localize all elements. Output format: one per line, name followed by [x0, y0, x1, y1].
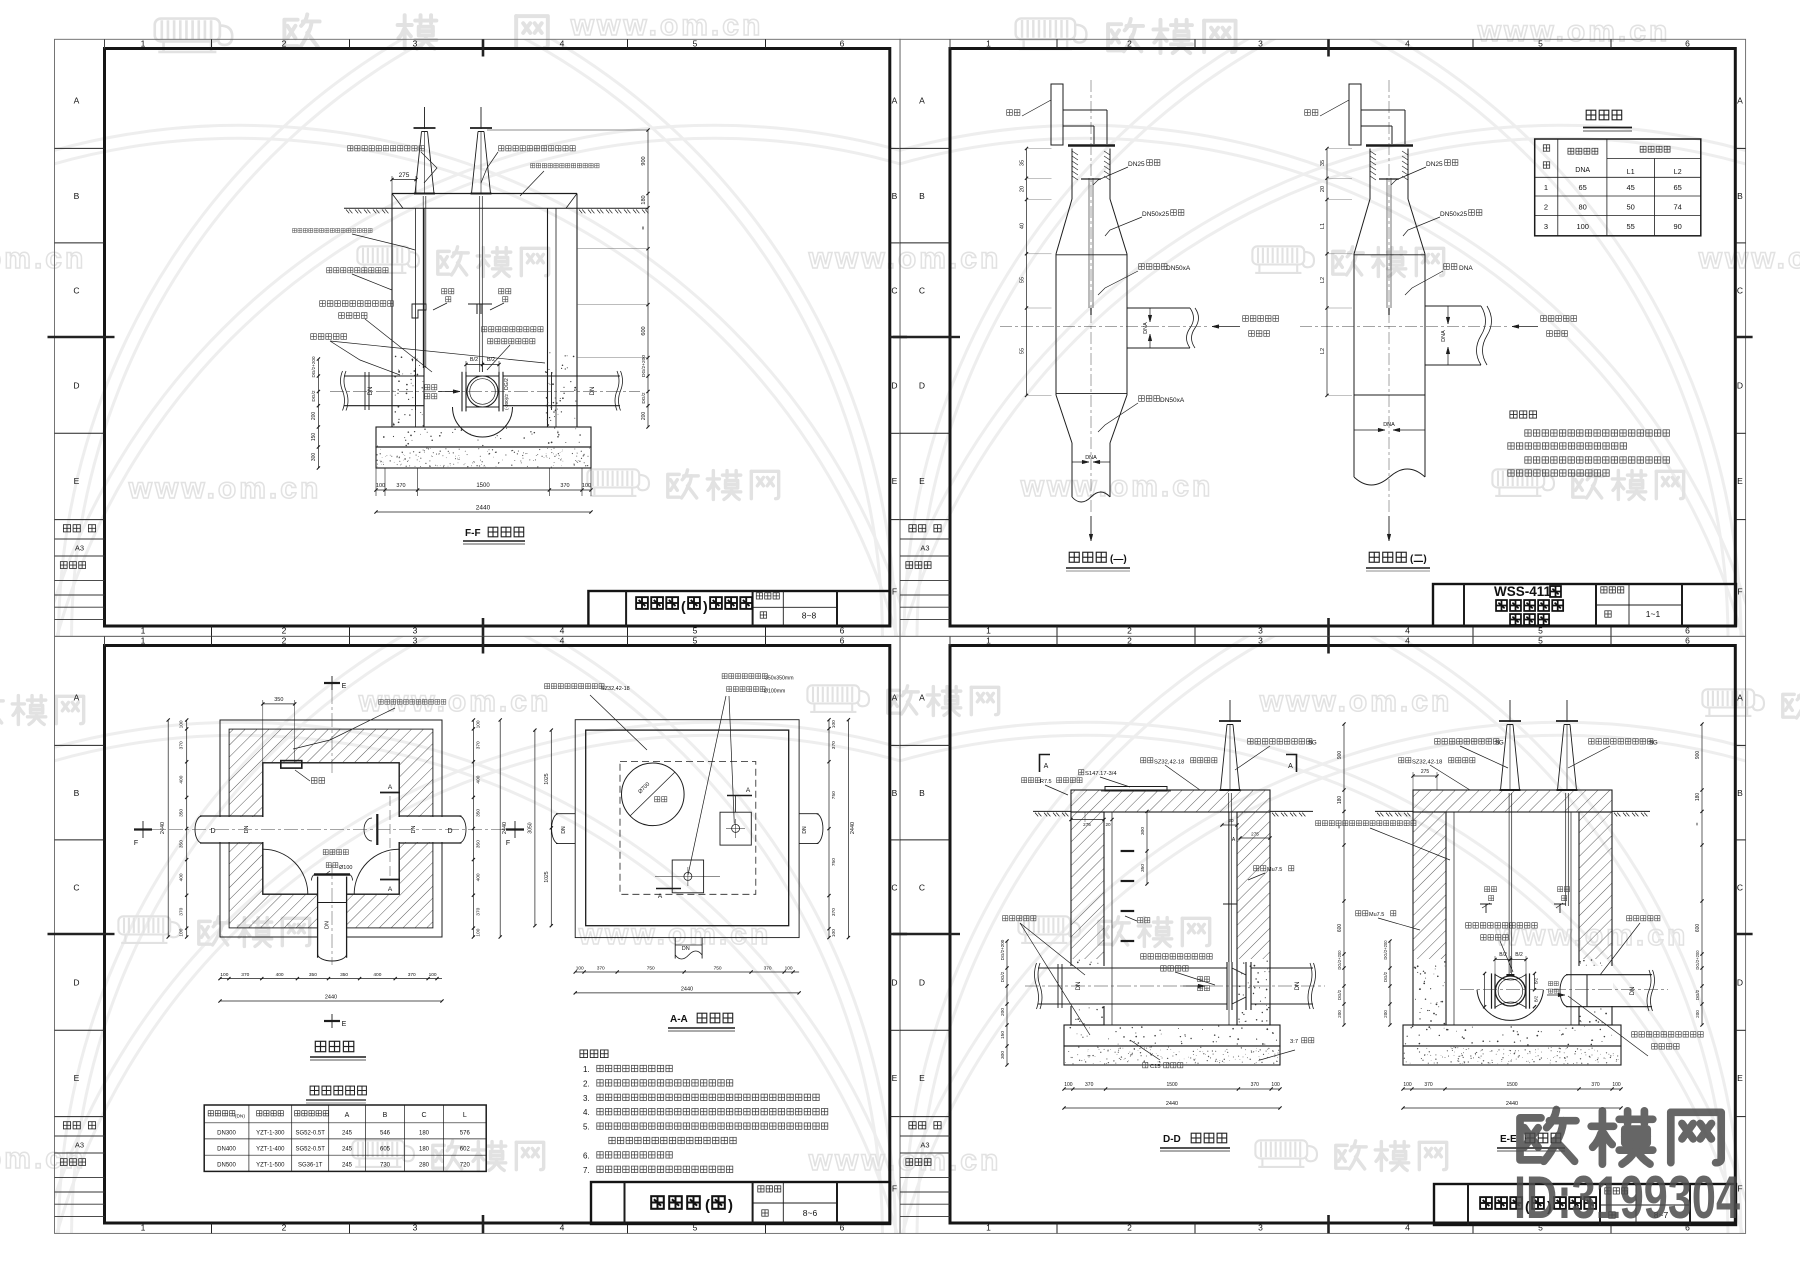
svg-text:370: 370 — [475, 741, 481, 749]
svg-text:750: 750 — [714, 966, 722, 972]
svg-text:D: D — [1737, 381, 1743, 391]
svg-text:20: 20 — [1228, 818, 1234, 823]
svg-text:576: 576 — [460, 1130, 471, 1136]
svg-text:5: 5 — [693, 39, 698, 49]
svg-text:5: 5 — [1538, 39, 1543, 49]
svg-text:5.: 5. — [583, 1123, 590, 1132]
svg-text:D: D — [891, 978, 897, 988]
svg-text:DN25: DN25 — [1426, 161, 1443, 168]
svg-text:E-E: E-E — [1500, 1134, 1517, 1145]
svg-text:350: 350 — [475, 840, 481, 848]
svg-text:2: 2 — [1127, 1222, 1132, 1232]
svg-text:80: 80 — [1579, 202, 1587, 211]
svg-text:100: 100 — [1612, 1082, 1621, 1088]
svg-text:A3: A3 — [920, 1140, 929, 1149]
svg-text:400: 400 — [179, 775, 185, 783]
svg-text:DG/2: DG/2 — [504, 378, 510, 390]
svg-text:SZ32,42-18: SZ32,42-18 — [601, 686, 630, 692]
svg-text:370: 370 — [560, 483, 569, 489]
svg-text:245: 245 — [342, 1163, 353, 1169]
svg-text:100: 100 — [576, 966, 584, 972]
svg-text:2440: 2440 — [1506, 1101, 1518, 1107]
svg-text:C15: C15 — [1150, 1064, 1161, 1070]
svg-text:DN: DN — [1630, 987, 1636, 996]
svg-text:1: 1 — [141, 625, 146, 635]
svg-text:DNA: DNA — [1085, 455, 1097, 461]
svg-text:2: 2 — [1127, 39, 1132, 49]
svg-text:1: 1 — [141, 1222, 146, 1232]
svg-text:C: C — [73, 883, 79, 893]
svg-text:2: 2 — [1544, 202, 1548, 211]
svg-text:3: 3 — [1544, 222, 1548, 231]
svg-text:65: 65 — [1674, 183, 1682, 192]
svg-text:Mu7.5: Mu7.5 — [1369, 912, 1384, 918]
svg-text:B/2: B/2 — [1534, 995, 1539, 1002]
svg-text:35: 35 — [1020, 160, 1026, 166]
svg-text:2440: 2440 — [502, 822, 508, 834]
svg-text:www.om.cn: www.om.cn — [128, 472, 322, 505]
svg-text:F-F: F-F — [465, 528, 481, 539]
svg-text:F: F — [134, 840, 138, 847]
svg-text:=: = — [641, 226, 647, 230]
svg-text:www.om.cn: www.om.cn — [1259, 685, 1453, 718]
svg-text:2: 2 — [282, 636, 287, 646]
svg-text:B: B — [74, 191, 80, 201]
svg-text:350: 350 — [179, 840, 185, 848]
svg-text:370: 370 — [1251, 1082, 1260, 1088]
svg-text:4: 4 — [1405, 39, 1410, 49]
svg-text:E: E — [919, 1073, 925, 1083]
svg-text:A: A — [892, 96, 898, 106]
svg-text:DG/2: DG/2 — [1695, 989, 1700, 1000]
svg-text:ID:3199304: ID:3199304 — [1514, 1164, 1740, 1231]
svg-text:6: 6 — [840, 636, 845, 646]
svg-text:B: B — [74, 788, 80, 798]
svg-text:www.om.cn: www.om.cn — [570, 9, 764, 42]
svg-text:A: A — [74, 693, 80, 703]
svg-text:DG/2+200: DG/2+200 — [311, 356, 316, 378]
svg-text:3: 3 — [413, 39, 418, 49]
svg-text:DG/2: DG/2 — [1000, 971, 1005, 982]
svg-text:DG/2: DG/2 — [1337, 989, 1342, 1000]
svg-text:370: 370 — [1085, 1082, 1094, 1088]
svg-text:L1: L1 — [1320, 223, 1326, 229]
svg-text:SZ32,42-18: SZ32,42-18 — [1154, 760, 1184, 766]
svg-text:Mu7.5: Mu7.5 — [1267, 867, 1282, 873]
svg-text:65: 65 — [1579, 183, 1587, 192]
svg-text:A: A — [388, 784, 393, 791]
svg-text:4: 4 — [560, 636, 565, 646]
svg-text:40: 40 — [1020, 223, 1026, 229]
svg-text:750: 750 — [831, 791, 837, 799]
svg-text:DN50xA: DN50xA — [1160, 397, 1185, 404]
svg-text:SG: SG — [1495, 741, 1504, 747]
svg-text:Ø100mm: Ø100mm — [764, 689, 785, 695]
svg-text:4: 4 — [1405, 1222, 1410, 1232]
svg-text:100: 100 — [582, 483, 591, 489]
svg-text:3: 3 — [413, 1222, 418, 1232]
svg-text:DNA: DNA — [1575, 167, 1590, 174]
svg-text:100: 100 — [429, 972, 437, 978]
svg-text:3.: 3. — [583, 1094, 590, 1103]
svg-text:F: F — [892, 587, 897, 597]
svg-text:400: 400 — [276, 972, 284, 978]
svg-text:DG/2+200: DG/2+200 — [1000, 939, 1005, 960]
svg-text:1500: 1500 — [476, 483, 490, 489]
svg-text:A-A: A-A — [670, 1014, 688, 1025]
svg-text:DN50x25: DN50x25 — [1440, 211, 1467, 218]
svg-text:275: 275 — [399, 172, 410, 179]
svg-text:www.om.cn: www.om.cn — [1477, 15, 1671, 48]
svg-text:750: 750 — [647, 966, 655, 972]
svg-text:370: 370 — [179, 741, 185, 749]
svg-text:370: 370 — [179, 907, 185, 915]
svg-text:100: 100 — [220, 972, 228, 978]
svg-text:2.: 2. — [583, 1079, 590, 1088]
svg-text:SG: SG — [1308, 741, 1317, 747]
svg-text:4: 4 — [560, 1222, 565, 1232]
svg-text:1: 1 — [986, 636, 991, 646]
svg-text:350: 350 — [309, 972, 317, 978]
svg-text:DN400: DN400 — [217, 1146, 236, 1152]
svg-text:www.om.cn: www.om.cn — [808, 1144, 1002, 1177]
svg-text:DN25: DN25 — [1128, 161, 1145, 168]
svg-text:E: E — [74, 476, 80, 486]
svg-text:600: 600 — [641, 326, 647, 335]
svg-text:DN300: DN300 — [217, 1130, 236, 1136]
svg-text:400: 400 — [373, 972, 381, 978]
svg-text:B: B — [919, 788, 925, 798]
svg-text:245: 245 — [342, 1130, 353, 1136]
svg-text:350: 350 — [179, 809, 185, 817]
svg-text:(: ( — [681, 598, 686, 614]
svg-text:A: A — [892, 693, 898, 703]
svg-text:A: A — [1737, 693, 1743, 703]
svg-text:4: 4 — [560, 625, 565, 635]
svg-text:90: 90 — [1674, 222, 1682, 231]
svg-text:DG/2+200: DG/2+200 — [1383, 940, 1388, 960]
svg-text:DN: DN — [368, 387, 374, 396]
svg-text:B: B — [383, 1112, 388, 1119]
svg-text:www.om.cn: www.om.cn — [578, 918, 772, 951]
svg-text:20: 20 — [1320, 186, 1326, 192]
svg-text:275: 275 — [1251, 832, 1259, 837]
svg-text:C: C — [919, 883, 925, 893]
svg-text:Ø100: Ø100 — [339, 865, 352, 871]
svg-text:E: E — [892, 1073, 898, 1083]
svg-text:370: 370 — [764, 966, 772, 972]
svg-text:E: E — [74, 1073, 80, 1083]
svg-text:S147.17-3/4: S147.17-3/4 — [1085, 771, 1117, 777]
svg-text:L2: L2 — [1674, 169, 1682, 176]
svg-text:C: C — [891, 883, 897, 893]
svg-text:SG: SG — [1649, 741, 1658, 747]
svg-text:DG/2: DG/2 — [1383, 971, 1388, 982]
svg-text:100: 100 — [1403, 1082, 1412, 1088]
svg-text:A3: A3 — [920, 543, 929, 552]
svg-text:www.om.cn: www.om.cn — [808, 242, 1002, 275]
svg-text:180: 180 — [641, 195, 647, 204]
svg-text:B/2: B/2 — [1515, 952, 1523, 958]
svg-text:DNA: DNA — [1459, 265, 1473, 272]
svg-text:1: 1 — [1544, 183, 1548, 192]
svg-text:180: 180 — [1337, 796, 1343, 805]
svg-text:D: D — [73, 978, 79, 988]
svg-text:4: 4 — [560, 39, 565, 49]
svg-text:E: E — [892, 476, 898, 486]
svg-text:3:7: 3:7 — [1290, 1039, 1298, 1045]
svg-text:A: A — [1737, 96, 1743, 106]
svg-text:3: 3 — [1258, 1222, 1263, 1232]
svg-text:370: 370 — [408, 972, 416, 978]
svg-text:370: 370 — [1424, 1082, 1433, 1088]
svg-text:C: C — [421, 1112, 426, 1119]
svg-text:55: 55 — [1020, 277, 1026, 283]
svg-text:L: L — [463, 1112, 467, 1119]
svg-text:(-300)/2: (-300)/2 — [504, 394, 509, 410]
svg-text:A: A — [919, 693, 925, 703]
svg-text:F: F — [1737, 587, 1742, 597]
svg-text:20: 20 — [1105, 822, 1111, 827]
svg-text:3050: 3050 — [528, 822, 534, 833]
svg-text:DN: DN — [802, 826, 808, 834]
svg-text:D: D — [73, 381, 79, 391]
svg-text:C: C — [1737, 883, 1743, 893]
svg-text:370: 370 — [1591, 1082, 1600, 1088]
svg-text:280: 280 — [419, 1163, 430, 1169]
svg-text:A: A — [1044, 763, 1049, 770]
svg-text:180: 180 — [419, 1130, 430, 1136]
svg-text:6: 6 — [1685, 39, 1690, 49]
svg-text:300: 300 — [311, 453, 317, 462]
svg-text:275: 275 — [1083, 822, 1091, 827]
svg-text:A: A — [1288, 763, 1293, 770]
svg-text:100: 100 — [179, 928, 185, 936]
svg-text:275: 275 — [1421, 769, 1430, 775]
svg-text:2440: 2440 — [476, 505, 491, 512]
svg-text:D: D — [447, 828, 452, 835]
svg-text:www.om.cn: www.om.cn — [1020, 470, 1214, 503]
svg-text:350: 350 — [1140, 864, 1146, 872]
svg-text:1500: 1500 — [1506, 1082, 1517, 1088]
svg-text:B/2: B/2 — [1534, 977, 1539, 984]
svg-text:370: 370 — [831, 741, 837, 749]
svg-text:4: 4 — [1405, 636, 1410, 646]
svg-text:8~8: 8~8 — [802, 611, 817, 621]
svg-text:2: 2 — [282, 1222, 287, 1232]
svg-text:2440: 2440 — [325, 995, 337, 1001]
svg-text:www.om.cn: www.om.cn — [358, 685, 552, 718]
svg-text:www.om.cn: www.om.cn — [0, 242, 86, 275]
svg-text:150: 150 — [1000, 1031, 1006, 1039]
svg-text:B/2: B/2 — [470, 357, 478, 363]
svg-text:245: 245 — [342, 1146, 353, 1152]
svg-text:E: E — [1737, 476, 1743, 486]
svg-text:): ) — [703, 598, 708, 614]
svg-text:2: 2 — [282, 625, 287, 635]
svg-text:100: 100 — [1271, 1082, 1280, 1088]
svg-text:(二): (二) — [1410, 553, 1427, 565]
svg-text:F: F — [506, 840, 510, 847]
svg-text:B: B — [1737, 788, 1743, 798]
svg-text:370: 370 — [396, 483, 405, 489]
svg-text:45: 45 — [1627, 183, 1635, 192]
svg-text:A: A — [345, 1112, 350, 1119]
svg-text:L1: L1 — [1627, 169, 1635, 176]
svg-text:55: 55 — [1020, 348, 1026, 354]
svg-text:100: 100 — [475, 928, 481, 936]
svg-text:6: 6 — [1685, 636, 1690, 646]
svg-text:): ) — [728, 1197, 733, 1214]
svg-text:DNA: DNA — [1383, 422, 1395, 428]
svg-text:B: B — [919, 191, 925, 201]
svg-text:400: 400 — [179, 873, 185, 881]
svg-text:1: 1 — [141, 636, 146, 646]
svg-text:B: B — [892, 191, 898, 201]
svg-text:R7.5: R7.5 — [1040, 779, 1052, 785]
svg-text:100: 100 — [376, 483, 385, 489]
svg-text:www.om.cn: www.om.cn — [1698, 242, 1800, 275]
svg-text:7.: 7. — [583, 1166, 590, 1175]
svg-text:E: E — [342, 1021, 347, 1028]
svg-text:350: 350 — [274, 697, 283, 703]
svg-text:1.: 1. — [583, 1065, 590, 1074]
svg-text:SG52-0.5T: SG52-0.5T — [296, 1130, 326, 1136]
svg-text:2: 2 — [1127, 636, 1132, 646]
svg-text:5: 5 — [1538, 636, 1543, 646]
svg-text:1: 1 — [986, 625, 991, 635]
svg-text:L2: L2 — [1320, 277, 1326, 283]
svg-text:2440: 2440 — [160, 822, 166, 834]
svg-text:1~1: 1~1 — [1646, 609, 1661, 619]
svg-text:1500: 1500 — [1166, 1082, 1177, 1088]
svg-text:(—): (—) — [1110, 554, 1127, 565]
svg-text:3: 3 — [413, 636, 418, 646]
svg-text:200: 200 — [1383, 1010, 1388, 1018]
svg-text:8~6: 8~6 — [803, 1208, 818, 1218]
svg-text:400: 400 — [475, 775, 481, 783]
svg-text:3: 3 — [1258, 636, 1263, 646]
svg-text:A: A — [746, 787, 751, 794]
svg-text:DG/2: DG/2 — [641, 392, 647, 404]
svg-text:3: 3 — [1258, 39, 1263, 49]
svg-text:SG36-1T: SG36-1T — [298, 1163, 323, 1169]
svg-text:100: 100 — [1576, 222, 1589, 231]
svg-text:E: E — [919, 476, 925, 486]
svg-text:C: C — [1737, 286, 1743, 296]
svg-text:600: 600 — [1695, 924, 1701, 933]
svg-text:E: E — [1737, 1073, 1743, 1083]
svg-text:DN50xA: DN50xA — [1166, 265, 1191, 272]
svg-text:DN: DN — [325, 921, 331, 929]
svg-text:YZT-1-500: YZT-1-500 — [256, 1163, 285, 1169]
svg-text:D: D — [1737, 978, 1743, 988]
svg-text:DG/2+200: DG/2+200 — [1337, 950, 1342, 970]
svg-text:D: D — [891, 381, 897, 391]
svg-text:100: 100 — [179, 720, 185, 728]
svg-text:370: 370 — [597, 966, 605, 972]
svg-text:1: 1 — [986, 1222, 991, 1232]
svg-text:E: E — [342, 683, 347, 690]
svg-text:605: 605 — [380, 1146, 391, 1152]
svg-text:A: A — [74, 96, 80, 106]
svg-text:F: F — [892, 1184, 897, 1194]
svg-text:3: 3 — [1258, 625, 1263, 635]
svg-text:200: 200 — [1695, 1010, 1700, 1018]
svg-text:730: 730 — [380, 1163, 391, 1169]
svg-text:602: 602 — [460, 1146, 471, 1152]
svg-text:300: 300 — [1140, 827, 1146, 835]
svg-text:3: 3 — [413, 625, 418, 635]
svg-text:6.: 6. — [583, 1151, 590, 1160]
svg-text:2440: 2440 — [850, 822, 856, 834]
svg-text:55: 55 — [1627, 222, 1635, 231]
svg-text:350x350mm: 350x350mm — [765, 676, 794, 682]
svg-text:=: = — [1695, 822, 1701, 825]
svg-text:600: 600 — [1337, 924, 1343, 933]
svg-text:DN500: DN500 — [217, 1163, 236, 1169]
svg-text:DN50x25: DN50x25 — [1142, 211, 1169, 218]
svg-text:200: 200 — [641, 412, 647, 421]
svg-text:A3: A3 — [75, 543, 84, 552]
svg-text:DNA: DNA — [1441, 330, 1447, 342]
svg-text:370: 370 — [831, 908, 837, 916]
svg-text:100: 100 — [785, 966, 793, 972]
svg-text:D: D — [919, 381, 925, 391]
svg-text:(DN): (DN) — [235, 1114, 246, 1120]
svg-text:1025: 1025 — [544, 871, 550, 882]
svg-text:B: B — [892, 788, 898, 798]
svg-text:YZT-1-400: YZT-1-400 — [256, 1146, 285, 1152]
svg-text:35: 35 — [1320, 160, 1326, 166]
svg-text:100: 100 — [831, 720, 837, 728]
svg-text:D: D — [919, 978, 925, 988]
svg-text:A: A — [388, 886, 393, 893]
svg-text:100: 100 — [1064, 1082, 1073, 1088]
svg-text:350: 350 — [475, 809, 481, 817]
svg-text:C: C — [919, 286, 925, 296]
svg-text:C: C — [73, 286, 79, 296]
svg-text:DG/2: DG/2 — [311, 390, 317, 402]
svg-text:2: 2 — [282, 39, 287, 49]
svg-text:6: 6 — [840, 39, 845, 49]
svg-text:C: C — [891, 286, 897, 296]
svg-text:900: 900 — [1337, 751, 1343, 760]
svg-text:DG/2+200: DG/2+200 — [641, 355, 647, 377]
svg-text:B/2: B/2 — [487, 357, 495, 363]
svg-text:L2: L2 — [1320, 348, 1326, 354]
svg-text:DNA: DNA — [1143, 322, 1149, 334]
svg-text:370: 370 — [241, 972, 249, 978]
svg-text:SZ32,42-18: SZ32,42-18 — [1412, 760, 1442, 766]
svg-text:200: 200 — [1337, 1010, 1342, 1018]
svg-text:20: 20 — [1020, 186, 1026, 192]
svg-text:100: 100 — [831, 929, 837, 937]
svg-text:1: 1 — [986, 39, 991, 49]
svg-text:720: 720 — [460, 1163, 471, 1169]
svg-text:400: 400 — [475, 873, 481, 881]
svg-text:750: 750 — [831, 858, 837, 866]
svg-text:350: 350 — [340, 972, 348, 978]
svg-text:50: 50 — [1627, 202, 1635, 211]
svg-text:180: 180 — [419, 1146, 430, 1152]
svg-text:DN: DN — [682, 946, 690, 952]
svg-text:546: 546 — [380, 1130, 391, 1136]
svg-text:1025: 1025 — [544, 773, 550, 784]
svg-text:DN: DN — [590, 387, 596, 396]
svg-text:100: 100 — [475, 720, 481, 728]
svg-text:WSS-411: WSS-411 — [1494, 584, 1552, 599]
